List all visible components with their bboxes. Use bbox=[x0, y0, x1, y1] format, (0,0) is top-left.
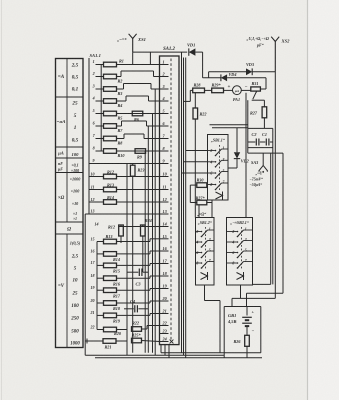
wire caps box top bbox=[248, 127, 273, 129]
page gutter line bbox=[307, 0, 309, 400]
wire SB1.1 row c bbox=[182, 172, 208, 174]
battery GB1 bbox=[242, 316, 252, 318]
wire row 9 (tap9) bbox=[89, 163, 160, 165]
table: measurement-range legend bbox=[56, 59, 84, 348]
wire XS2 stem down bbox=[274, 72, 276, 299]
resistor R17 (row 19) bbox=[97, 289, 104, 291]
resistor R25* bbox=[132, 338, 142, 343]
wire R26 down bbox=[246, 346, 248, 358]
wire caps right edge bbox=[272, 128, 274, 284]
wire battery box top bbox=[224, 306, 261, 308]
resistor R16 (row 18) bbox=[97, 277, 104, 279]
junction tick bbox=[86, 339, 88, 344]
resistor R8 (row) bbox=[96, 138, 104, 140]
wire SB blocks bottom b bbox=[240, 285, 242, 298]
jack XS2 bbox=[274, 42, 276, 72]
resistor R27* bbox=[190, 202, 197, 204]
diode VD2 bbox=[234, 152, 240, 158]
wire bundle v1 bbox=[149, 52, 151, 64]
diode VD1 bbox=[189, 48, 196, 55]
wire bundle v2 bbox=[152, 114, 154, 353]
capacitor C1 bbox=[260, 141, 265, 143]
resistor R20 (row 22) bbox=[97, 329, 104, 331]
wire bus right of SA1.2 a bbox=[181, 52, 183, 353]
wire bottom bus 1 bbox=[160, 345, 162, 353]
wire bundle v3 bbox=[154, 89, 156, 355]
wire pair upper bbox=[210, 124, 248, 126]
resistor R7 (row) bbox=[96, 125, 104, 127]
resistor R15 (row 17) bbox=[97, 264, 104, 266]
wire VD2 bottom bbox=[236, 159, 238, 168]
wire VD4 row bbox=[203, 77, 221, 79]
resistor R27 vertical bbox=[262, 107, 267, 118]
wire VD3 to XS2 stem bbox=[252, 71, 275, 73]
wire VD4 to corner bbox=[227, 77, 266, 79]
wire VD1 to corner bbox=[195, 51, 202, 53]
wire bundle v4 bbox=[147, 126, 149, 353]
wire battery top lead bbox=[246, 307, 248, 316]
resistor R2 (row) bbox=[96, 76, 104, 78]
diode VD3 bbox=[246, 68, 252, 75]
capacitor C4 bbox=[124, 308, 134, 310]
wire caps box bottom bbox=[248, 147, 273, 149]
wire PA1-R31 bbox=[241, 89, 251, 91]
resistor R13 (row 11) bbox=[89, 189, 104, 191]
wire battery box left bbox=[223, 307, 225, 358]
wire VD3 row bbox=[209, 71, 246, 73]
wire SB1.1 row b bbox=[184, 161, 208, 163]
resistor R28 bbox=[193, 88, 205, 93]
resistor R19 (row 21) bbox=[97, 314, 104, 316]
resistor R12 (row 10) bbox=[89, 176, 104, 178]
meter PA1 bbox=[233, 86, 242, 95]
resistor R10 (row) bbox=[96, 150, 104, 152]
resistor R22 mid bbox=[132, 327, 142, 332]
wire return a bbox=[270, 153, 272, 284]
wire rows15-22 left link bbox=[96, 242, 98, 330]
switch SA1.2 wiper dashed line bbox=[170, 59, 172, 343]
resistor R1 (row) bbox=[96, 64, 104, 66]
switch block SB1.2 bbox=[196, 218, 215, 286]
resistor R29* bbox=[212, 88, 224, 93]
potentiometer R31 bbox=[251, 87, 261, 91]
wire R29-PA1 bbox=[224, 89, 233, 91]
wire R28 left bbox=[190, 89, 192, 91]
switch SB1.1 arrow bbox=[216, 192, 223, 200]
wire v PA1 node down bbox=[247, 100, 249, 153]
wire SB1.1 row a bbox=[186, 150, 208, 152]
switch SA3 bbox=[262, 153, 264, 165]
wire corner down to VD4 row bbox=[202, 52, 204, 78]
switch SA1.2 contact ticks and pin numbers 1-24 bbox=[160, 64, 169, 66]
wire row 13 (tap13) bbox=[85, 213, 159, 215]
wire row 14 (tap14) bbox=[119, 226, 160, 228]
resistor R9 bbox=[135, 149, 146, 154]
resistor R26 vertical bbox=[245, 335, 250, 346]
resistor R21 (row 23) bbox=[85, 340, 103, 342]
resistor R4 (row) bbox=[96, 100, 104, 102]
wire battery box right bbox=[260, 307, 262, 353]
resistor R22 vertical bbox=[193, 108, 198, 119]
wire VD2 top bbox=[236, 128, 238, 153]
capacitor C3 bbox=[127, 271, 138, 273]
rotary switch SA1.2 body bbox=[160, 56, 180, 345]
resistor R24 vertical bbox=[141, 225, 146, 236]
resistor R14 (row 12) bbox=[89, 201, 104, 203]
wire R30 left down bbox=[189, 185, 191, 202]
wire top horizontal from XS1 bbox=[133, 51, 188, 53]
wire SB blocks bottom a bbox=[204, 285, 206, 301]
wire battery to R26 bbox=[246, 326, 248, 335]
wire v x208.6 bbox=[208, 72, 210, 78]
resistor R18 (row 20) bbox=[97, 302, 104, 304]
resistor R13 vertical bbox=[119, 225, 124, 236]
wire pair lower bbox=[212, 127, 248, 129]
capacitor C2 bbox=[248, 141, 256, 143]
wire R31 right bbox=[260, 88, 266, 90]
resistor R13 (row 15) bbox=[97, 241, 104, 243]
wire SA3 top bbox=[248, 152, 283, 154]
page left edge artifact bbox=[1, 0, 3, 400]
jack XS1 bbox=[132, 39, 134, 53]
wire left chain bus rows1-8 bbox=[100, 65, 102, 152]
wire left drop to bottom bus bbox=[84, 214, 86, 355]
wire XS1 down to R1 node bbox=[132, 52, 134, 64]
wire bus right of SA1.2 b bbox=[183, 58, 185, 356]
resistor R30 bbox=[190, 184, 197, 186]
wire SA1.1 pole bus bbox=[88, 58, 90, 214]
switch block SB1.1 frame bbox=[208, 135, 229, 201]
resistor R14 (row 16) bbox=[97, 253, 104, 255]
resistor R5 (row) bbox=[96, 113, 104, 115]
switch block SB2.1 bbox=[227, 218, 253, 286]
wiper position cross at pin 24 bbox=[170, 340, 174, 344]
diode VD4 bbox=[221, 74, 227, 81]
wire return b bbox=[282, 153, 284, 293]
wire R27 down bbox=[263, 117, 265, 128]
wire bottom bus 2 bbox=[164, 345, 166, 356]
wire R28-R29 bbox=[205, 89, 212, 91]
wire R31 down bbox=[263, 100, 265, 107]
switch SB1.1 contacts bbox=[215, 150, 217, 152]
wire PA1 node into SB2.1 bbox=[245, 93, 247, 218]
wire bus right of SA1.2 c bbox=[185, 58, 187, 358]
wire bottom bus 3 bbox=[168, 345, 170, 358]
wire bundle v6 bbox=[126, 164, 128, 356]
resistor R3 (row) bbox=[96, 88, 104, 90]
resistor R6 bbox=[132, 111, 143, 116]
resistor R23 vertical bbox=[130, 165, 135, 176]
wire into SB1.2 bbox=[198, 205, 200, 218]
wire bundle v5 bbox=[144, 151, 146, 353]
